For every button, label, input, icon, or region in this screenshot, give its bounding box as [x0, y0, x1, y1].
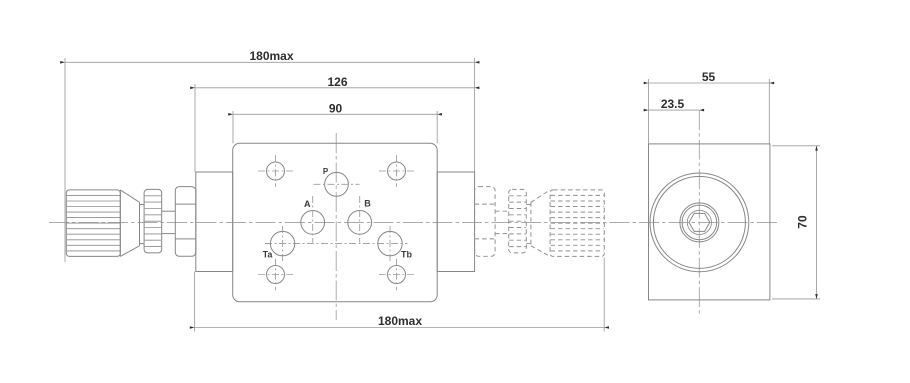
svg-text:180max: 180max: [249, 49, 293, 63]
svg-text:55: 55: [702, 70, 716, 84]
svg-text:Tb: Tb: [401, 250, 412, 260]
svg-text:180max: 180max: [378, 314, 422, 328]
svg-text:126: 126: [327, 75, 347, 89]
svg-text:90: 90: [329, 101, 343, 115]
svg-text:A: A: [304, 199, 311, 209]
svg-text:P: P: [323, 167, 329, 176]
svg-text:70: 70: [796, 215, 810, 229]
svg-text:23.5: 23.5: [661, 97, 685, 111]
svg-text:B: B: [364, 199, 371, 209]
svg-text:Ta: Ta: [263, 250, 274, 260]
